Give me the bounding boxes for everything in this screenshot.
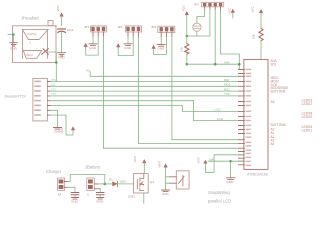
net stub AREF [90,72,238,77]
connector JP2 pad 1 [126,27,129,31]
mcu U1 right side labels [271,59,313,146]
connector JP1 outline [91,26,107,32]
wire mcu gnd net [208,161,244,178]
headset jack body right rail [47,30,49,59]
svg-text:GND: GND [226,180,234,184]
connector JHeaderFTDI body [33,78,48,121]
switch S1 pin stubs [170,177,177,183]
wire VCC to mosfet [143,163,145,173]
switch S1 body [176,171,189,189]
wire microphone to net [196,32,198,37]
wire cap to ground [74,195,76,198]
svg-text:GND: GND [124,46,132,50]
svg-text:parallel LCD: parallel LCD [208,199,231,204]
svg-text:JBattery: JBattery [85,165,101,170]
wire mosfet source down [143,193,145,203]
connector JP2 pad 2 [132,27,135,31]
svg-text:LCD: LCD [215,108,222,112]
svg-text:VCC: VCC [197,156,201,163]
wire JP3 signal long [172,37,239,140]
connector JHeaderFTDI inner pin names [34,81,41,116]
headset jack body left rail [22,30,24,59]
ground GND3 [89,44,97,46]
connector JP3 outline [158,26,175,32]
wire ftdi pin6 staircase [50,106,238,112]
svg-text:GND: GND [10,46,18,50]
capacitor C1 polarized [58,28,66,30]
ground GND4 [124,44,132,46]
ground GND9 [97,198,104,200]
svg-text:A4: A4 [271,142,275,146]
svg-text:10k: 10k [180,47,184,52]
supply VCC JP3 [152,45,156,49]
diode D1 [112,181,117,186]
wire charger pin1 up [68,175,105,182]
wire JP2 pin2 to VCC [118,36,133,55]
svg-text:10uF: 10uF [67,28,74,32]
junction mic bias [186,35,189,38]
svg-text:VCC: VCC [133,155,137,162]
svg-text:Ring: Ring [27,53,34,57]
connector JP4 pad 2 [208,3,211,6]
headset jack switch cross [42,49,49,55]
mcu U1 inner pin names [246,69,252,166]
svg-text:VBAT: VBAT [120,180,127,184]
connector JP1 pad 1 [91,27,94,31]
svg-text:JP3: JP3 [151,25,157,29]
junction jack sleeve [12,33,15,36]
connector JP3 pad 2 [165,27,168,31]
connector JP3 pin stubs [161,33,172,37]
ground GND2 [58,53,66,56]
wire ftdi pin5 staircase [50,101,238,121]
svg-text:GND: GND [96,200,104,204]
svg-text:GND: GND [128,195,136,199]
svg-text:MI0: MI0 [224,78,229,82]
wire junction to ground [12,35,14,43]
wire JP1 signal long [104,36,239,148]
connector JP4 pad 4 [219,3,222,6]
svg-text:A0A: A0A [224,60,230,64]
svg-text:VCC: VCC [227,7,231,14]
svg-text:Cut/Tip: Cut/Tip [27,32,37,36]
mcu U1 body [244,59,268,169]
svg-text:GND: GND [71,200,79,204]
switch S1 internals [179,175,185,186]
connector JHeaderFTDI pin stubs [47,82,50,116]
svg-text:JP1: JP1 [84,25,90,29]
wire JP4 pin4 to mcu [221,10,240,70]
connector JP3 pad 3 [170,27,173,31]
mosfet Q1 internals [137,174,144,192]
wire ftdi pin4 bus [50,95,238,97]
wire ftdi pin8 to VCC [50,115,73,135]
ground GND8 [72,198,79,200]
wire JP2 pin1 to ground [127,36,129,43]
svg-text:BUTTON6: BUTTON6 [271,90,286,94]
svg-text:JHeadset: JHeadset [21,16,40,21]
connector JP1 pad 2 [97,27,100,31]
ground GND1 [10,43,18,46]
net labels ftdi rows [51,79,56,96]
connector JP2 pin stubs [128,32,139,36]
connector JP1 pin stubs [93,32,104,36]
connector charger body [58,178,65,190]
capacitor C6 [96,193,104,195]
connector charger pad 1 [59,180,64,184]
wire VCC to resistor R1 [260,13,262,28]
connector battery pin stubs [94,184,100,189]
wire JP1 pin1 to ground [92,36,94,43]
svg-text:VCC: VCC [60,126,64,133]
svg-text:JP2: JP2 [117,25,123,29]
svg-text:MO1: MO1 [224,83,231,87]
wire net to resistor [186,36,188,44]
svg-text:GND: GND [58,56,66,60]
wire JP4 pin2 down [209,10,211,36]
connector JP4 outline [201,2,223,7]
svg-text:ATMEGA168: ATMEGA168 [247,172,268,176]
wire battery pin2 to cap [99,189,101,193]
connector charger pad 2 [59,185,64,189]
connector JP3 pad 1 [160,27,163,31]
junction mcu entry [238,63,241,66]
wire mic out net to mcu [187,63,240,65]
wire ftdi pin3 bus [50,90,238,92]
headset jack ring contact plate [23,51,41,59]
svg-text:VCC: VCC [181,4,185,11]
supply VCC JP1 [84,43,88,47]
junction pin3 net [214,63,217,66]
svg-text:Q1: Q1 [150,180,154,184]
svg-text:X2: X2 [58,193,62,197]
resistor R1 [259,28,263,41]
svg-text:VCC: VCC [250,5,254,12]
svg-text:Charger: Charger [46,169,62,174]
wire mic bias net [187,35,210,37]
svg-text:GND: GND [158,47,166,51]
wire JP3 pin2 to VCC [154,37,167,55]
resistor R3 [185,44,189,55]
headset jack terminal box top right [48,20,53,25]
svg-text:GND: GND [162,192,170,196]
microphone MIC1 [193,23,201,31]
connector battery pad 2 [88,185,93,189]
svg-text:VBAT: VBAT [158,160,162,167]
junction jack bottom corner [55,61,58,64]
ground GND7 [226,178,235,180]
svg-text:D1: D1 [109,178,113,182]
wire cap2 to ground [99,195,101,198]
wire JP3 pin1 to ground [160,37,162,45]
junction gnd net [229,160,231,162]
wire switch pins to bar [166,177,170,183]
svg-text:S01: S01 [271,62,277,66]
wire ftdi pin7 to ground [50,110,57,127]
ground GND6 [54,128,62,130]
wire battery node up [104,175,106,184]
wire sleeve stub left [8,34,13,36]
connector JP4 pad 3 [214,3,217,6]
wire resistor to A net [186,54,188,64]
supply VCC JP2 [116,43,120,47]
wire VCC to mic net [186,15,188,36]
svg-text:VCC: VCC [56,4,60,11]
connector battery body [87,178,95,190]
connector JP4 pad 1 [203,3,206,6]
svg-text:JP4: JP4 [194,2,200,6]
svg-text:RX1: RX1 [224,87,230,91]
svg-text:JHeaderFTDI: JHeaderFTDI [4,95,26,99]
svg-text:LED01: LED01 [302,129,313,133]
connector JP2 pad 3 [137,27,140,31]
wire jack switch to ftdi [49,52,57,82]
svg-text:LED09: LED09 [302,115,313,119]
svg-text:+: + [55,25,57,29]
wire cap to ground [61,33,63,53]
svg-text:TX0: TX0 [224,92,230,96]
connector JP4 pin stubs [205,6,221,10]
wire resistor R1 to mcu reset [260,41,262,60]
svg-text:10k: 10k [252,34,256,39]
wire charger pin2 to cap [68,187,76,192]
headset jack tip contact plate [23,30,49,40]
ground GND5 [157,45,165,47]
wire JP4 pin3 down [214,10,216,64]
mosfet Q1 body [133,174,148,194]
svg-text:SW: SW [209,157,214,161]
mcu U1 left pin stubs [239,70,245,165]
wire diode to mosfet [118,183,134,185]
junction battery node [104,183,107,186]
connector battery pad 1 [88,180,93,184]
wire JP4 pin1 to microphone [197,10,205,23]
connector JP2 outline [126,26,142,32]
wire ftdi pin1 bus [50,81,238,83]
wire battery plus [99,183,112,185]
wire JP2 signal long [139,36,239,143]
ground GND10 [162,190,170,192]
supply VCC ftdi [71,126,75,130]
connector charger pin stubs [65,182,68,188]
wire ftdi pin2 bus [50,85,238,87]
connector JP1 pad 3 [102,27,105,31]
svg-text:LED02: LED02 [302,102,313,106]
svg-text:A6: A6 [271,100,275,104]
wire supply to switch bar [165,168,167,191]
junction resistor bottom [186,63,189,66]
wire JP1 pin2 to VCC [86,36,99,55]
svg-text:LCD: LCD [217,117,224,121]
capacitor C5 [71,193,79,195]
wire VCC to mcu pin [205,155,244,173]
headset jack J1 body [13,26,57,63]
svg-text:SnapWiring: SnapWiring [208,190,230,195]
svg-text:GND: GND [89,46,97,50]
